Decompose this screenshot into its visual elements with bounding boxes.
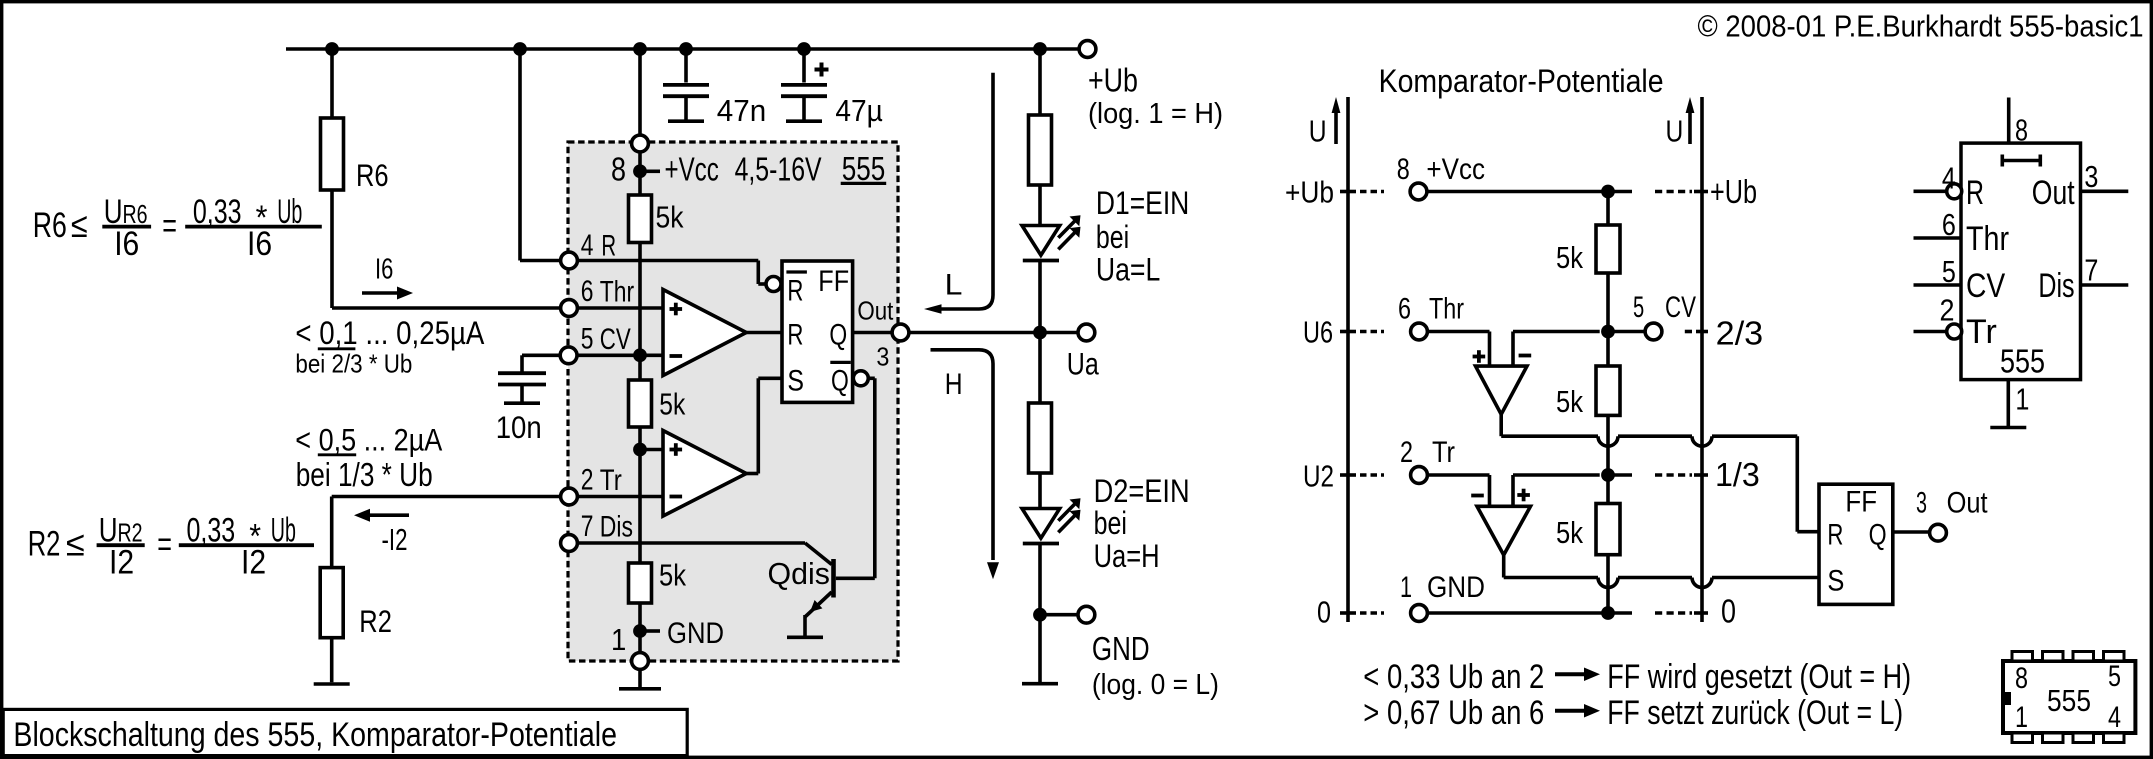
pin 5 CV lead [1914,254,2006,305]
svg-text:5k: 5k [656,200,684,235]
current arrow H (source) [931,350,1000,579]
left voltage axis [1309,97,1348,622]
diode D1 LED [1022,215,1081,260]
current arrow L (sink) [924,73,993,314]
svg-text:U: U [1666,113,1684,148]
junction on bus at LED chain [1033,42,1047,56]
dashes to right axis 2/3 [1685,315,1763,352]
wire D2 to GND [1038,544,1042,683]
svg-text:R6: R6 [356,157,389,193]
svg-text:4: 4 [2108,701,2121,734]
resistor 5k lower [629,558,687,604]
wire pin8 to divider [638,152,642,195]
annotation threshold current [295,314,484,379]
IC U1 555 dashed outline [568,142,898,661]
pin 1 lead to ground [2008,380,2029,426]
svg-text:bei 2/3 * Ub: bei 2/3 * Ub [295,349,412,379]
wire pin2 Tr to R2 [332,497,561,568]
svg-text:© 2008-01 P.E.Burkhardt 555-ba: © 2008-01 P.E.Burkhardt 555-basic1 [1698,9,2144,44]
svg-text:4: 4 [581,229,594,262]
svg-text:H: H [945,368,963,401]
node 2 Tr [1411,467,1428,484]
junction CV node [633,348,647,362]
svg-text:7: 7 [581,510,594,543]
svg-text:Thr: Thr [1966,220,2009,258]
wire FF Q out [1893,530,1930,534]
svg-text:Komparator-Potentiale: Komparator-Potentiale [1379,63,1664,99]
capacitor C1 47n [663,49,766,128]
svg-text:5k: 5k [659,558,686,593]
svg-text:+Ub: +Ub [1710,173,1757,210]
svg-text:6: 6 [581,275,594,308]
terminal +Ub [1079,41,1223,130]
svg-text:R: R [1966,174,1984,212]
wire Tr to compB minus [1428,475,1490,506]
svg-text:< 0,33 Ub an 2: < 0,33 Ub an 2 [1363,658,1544,696]
svg-text:1: 1 [1400,571,1412,604]
wire FF Qbar to Qdis base [836,378,875,578]
svg-text:0,33: 0,33 [193,193,242,231]
svg-text:6: 6 [1942,207,1956,242]
svg-text:(log. 0 = L): (log. 0 = L) [1092,669,1219,701]
svg-text:3: 3 [876,342,889,372]
wire +Ub top bus [286,47,1078,51]
svg-text:6: 6 [1398,293,1411,326]
dashes to right axis 1/3 [1655,456,1760,493]
svg-text:47µ: 47µ [835,94,882,128]
svg-text:bei: bei [1094,505,1127,541]
wire pin4 to FF Rbar [577,261,766,285]
svg-text:Ua: Ua [1067,345,1099,381]
junction CV node (potential) [1601,325,1645,339]
svg-text:1: 1 [2015,701,2028,734]
svg-text:I6: I6 [375,254,393,286]
svg-text:(log. 1 = H): (log. 1 = H) [1088,98,1223,130]
svg-text:Tr: Tr [1966,313,1997,351]
svg-text:CV: CV [1665,291,1696,324]
annotation trigger current [295,422,442,493]
node 6 Thr [1411,323,1428,340]
svg-text:0: 0 [1721,593,1736,630]
svg-text:Q: Q [1869,518,1887,551]
level 0 row [1317,571,1485,629]
junction on bus at pin4 wire [513,42,527,56]
svg-text:-I2: -I2 [382,522,408,557]
svg-text:+Vcc: +Vcc [1426,153,1485,186]
flip-flop FF box (potential) [1819,484,1893,604]
DIP bottom pins [2012,733,2124,743]
wire compA out to FF R with hops [1501,414,1819,531]
svg-text:555: 555 [2000,343,2045,380]
svg-text:8: 8 [611,150,626,187]
junction 1/3 node [633,443,663,457]
pin 4 R lead with bubble [1914,160,1985,212]
drawing title text [13,716,617,754]
svg-text:≤: ≤ [66,525,85,564]
svg-text:Ua=H: Ua=H [1094,538,1160,574]
svg-text:Tr: Tr [1432,436,1455,469]
current arrow I6 [362,254,413,300]
svg-text:+Ub: +Ub [1088,62,1138,99]
wire R2 to ground [330,638,334,683]
svg-text:5k: 5k [1556,240,1583,275]
resistor 5k top (potential) [1556,192,1620,367]
level +Ub row [1285,153,1485,210]
op-amp comparator lower (Tr) [663,431,746,517]
svg-text:Blockschaltung des 555, Kompar: Blockschaltung des 555, Komparator-Poten… [13,716,617,754]
ground under pin 1 [619,687,661,691]
DIP pin1 notch [2005,692,2012,705]
svg-text:555: 555 [2047,683,2091,718]
svg-text:47n: 47n [717,94,766,128]
svg-text:3: 3 [1916,487,1927,520]
svg-text:< 0,1 ... 0,25µA: < 0,1 ... 0,25µA [295,314,484,351]
annotation FF set rule [1363,658,1911,696]
pin 2 Tr terminal [561,464,622,505]
svg-text:7: 7 [2084,253,2098,288]
svg-text:Ua=L: Ua=L [1096,252,1160,288]
svg-text:+Vcc: +Vcc [665,150,719,187]
node 5 CV [1633,291,1696,340]
resistor 5k bottom (potential) [1556,504,1620,614]
svg-text:CV: CV [1966,267,2005,305]
pin 3 Out terminal [857,296,908,372]
svg-text:Qdis: Qdis [768,556,830,591]
resistor upper LED [1029,115,1052,185]
svg-text:5k: 5k [1556,384,1583,419]
svg-text:0: 0 [1317,594,1331,629]
junction on bus at pin8 wire [633,42,647,56]
pin 2 Tr lead with bubble [1914,292,1997,351]
pin 1 terminal [632,653,649,670]
capacitor C3 10n [496,355,560,445]
title Komparator-Potentiale [1379,63,1664,99]
svg-text:1: 1 [611,622,626,657]
svg-text:D1=EIN: D1=EIN [1096,185,1189,221]
svg-text:> 0,67 Ub an 6: > 0,67 Ub an 6 [1363,694,1544,732]
svg-text:2: 2 [1940,292,1955,327]
ground under LED chain [1022,682,1058,686]
label 555 inside pinout [2000,343,2045,380]
svg-text:0,33: 0,33 [187,512,236,550]
svg-text:5: 5 [1942,254,1956,289]
wire FF Q to pin3 Out [853,331,892,335]
svg-text:I2: I2 [241,544,266,582]
svg-text:FF: FF [818,265,849,298]
svg-text:Thr: Thr [1429,293,1464,326]
svg-text:3: 3 [2084,159,2098,194]
wire D1 to Ua node [1038,261,1042,404]
svg-text:5k: 5k [659,386,685,421]
svg-text:5: 5 [2108,660,2121,693]
formula R2 [28,512,314,582]
wire compB out to FF S with hops [1504,555,1819,588]
dashes to right axis 0 [1655,593,1736,630]
svg-text:Q: Q [829,318,847,351]
op-amp comparator upper (Thr) [663,290,746,376]
wire divider upper-middle [638,243,642,381]
right voltage axis [1666,97,1703,622]
svg-text:555: 555 [842,150,886,187]
svg-text:1: 1 [2015,381,2029,416]
svg-text:I6: I6 [114,225,139,263]
svg-text:Q: Q [831,365,849,398]
svg-text:=: = [157,525,172,564]
svg-text:R: R [1827,518,1843,551]
svg-text:8: 8 [1397,153,1410,186]
label D1 [1096,185,1189,288]
pin 5 CV terminal [560,323,631,364]
junction GND node [633,624,660,638]
svg-text:I6: I6 [247,225,272,263]
pin 8 lead [2009,98,2028,148]
wire pin5 CV to divider [577,353,663,357]
pin 4 R terminal [561,229,617,269]
junction GND/LED node [1033,608,1078,622]
svg-text:Tr: Tr [600,464,622,497]
svg-text:Out: Out [2032,174,2075,212]
level U2 row [1303,436,1455,494]
svg-text:≤: ≤ [71,206,88,245]
svg-text:Dis: Dis [600,511,633,544]
wire bus to LED resistor [1038,49,1042,115]
svg-text:5: 5 [581,323,594,356]
terminal 3 Out [1916,487,1988,541]
svg-text:5k: 5k [1556,515,1583,550]
pin 6 Thr lead [1914,207,2010,258]
resistor 5k middle (potential) [1556,366,1620,504]
label D2 [1094,473,1190,574]
junction on bus at C 47u [797,42,811,56]
wire divider middle-lower [638,427,642,563]
svg-text:2: 2 [1400,436,1413,469]
svg-text:GND: GND [1427,571,1485,604]
resistor R2 [320,568,392,639]
current arrow -I2 [354,509,409,557]
svg-text:8: 8 [2015,662,2028,695]
resistor lower LED [1029,403,1052,473]
svg-text:10n: 10n [496,409,542,445]
svg-text:bei: bei [1096,219,1129,255]
IC pin1 labels [611,617,724,657]
pin 3 Out lead [2032,159,2129,212]
wire pin1 to ground [638,669,642,687]
junction pin8 node [633,164,647,178]
junction GND/divider [1601,606,1615,620]
junction Vcc/divider [1601,185,1615,199]
svg-text:U: U [1309,113,1327,148]
capacitor C2 47u electrolytic [781,49,883,128]
FF Qbar inverter bubble [853,371,868,386]
formula R6 [33,193,322,263]
dashes to right axis +Ub [1655,173,1757,210]
wire GND row [1428,611,1633,615]
svg-text:S: S [787,365,804,398]
wire Qdis emitter to ground [803,615,807,636]
svg-text:R: R [787,318,803,351]
svg-text:I2: I2 [109,544,134,582]
flip-flop FF box [782,261,853,402]
IC top labels [611,150,886,188]
svg-text:8: 8 [2015,112,2028,147]
svg-text:=: = [162,207,177,246]
junction 1/3 node (potential) [1601,468,1632,482]
wire resistor to D2 [1038,473,1042,509]
svg-text:Thr: Thr [600,276,634,309]
svg-text:+Ub: +Ub [1285,175,1334,210]
svg-text:4: 4 [1942,160,1956,195]
svg-text:Ub: Ub [271,512,296,550]
junction on bus at R6 [325,42,339,56]
DIP top pins [2012,652,2124,662]
wire pin7 Dis to Qdis collector [577,543,831,565]
svg-text:Out: Out [1947,487,1989,520]
svg-text:5: 5 [1633,291,1644,324]
svg-text:D2=EIN: D2=EIN [1094,473,1190,509]
wire pin2 to comparator [577,495,663,499]
ground under R2 [314,682,350,686]
node 1 GND [1411,605,1428,622]
level U6 row [1303,293,1464,350]
title box [3,709,687,755]
svg-text:Dis: Dis [2038,267,2074,305]
svg-text:FF: FF [1845,486,1877,519]
wire bus to pin 8 [638,49,642,135]
svg-text:R: R [601,229,616,262]
svg-text:4,5-16V: 4,5-16V [735,150,822,187]
op-amp comparator B (down) [1471,489,1530,555]
wire R6 to pin6 Thr [332,190,560,308]
svg-text:R2: R2 [28,525,61,564]
svg-text:R6: R6 [33,206,67,245]
wire pin3 Out to Ua [909,331,1078,335]
resistor 5k upper [629,195,684,243]
op-amp comparator A (down) [1473,350,1532,414]
transistor Qdis [768,556,834,617]
IC 555 pinout box [1961,143,2081,380]
svg-text:Out: Out [857,296,894,326]
svg-text:FF setzt zurück (Out = L): FF setzt zurück (Out = L) [1607,694,1903,732]
svg-text:Ub: Ub [277,193,302,231]
svg-text:R: R [787,275,803,308]
terminal GND [1078,606,1219,701]
svg-text:L: L [945,268,963,301]
wire 1/3 node to compB plus [1513,475,1600,506]
diode D2 LED [1022,498,1081,543]
junction on bus at C 47n [679,42,693,56]
wire comp2 out to FF S [746,378,782,473]
terminal Ua [1067,324,1099,381]
svg-text:CV: CV [600,323,631,356]
wire CV node to compA minus [1513,332,1600,367]
svg-text:GND: GND [1092,630,1150,667]
copyright text [1698,9,2144,44]
wire Vcc row [1427,190,1632,194]
wire bus to pin4 R [520,49,560,261]
wire bus to R6 [330,49,334,118]
svg-text:U6: U6 [1303,315,1333,350]
timer symbol [2002,155,2040,167]
pin 7 Dis lead [2038,253,2128,306]
wire pin6 to comparator [577,306,663,310]
svg-text:1/3: 1/3 [1715,456,1760,493]
pin 8 terminal [632,135,649,152]
resistor 5k middle [629,380,686,427]
wire comp1 out to FF R [746,331,782,335]
resistor R6 [321,118,389,193]
svg-text:< 0,5 ... 2µA: < 0,5 ... 2µA [295,422,442,458]
node 8 +Vcc [1410,183,1427,200]
wire divider to pin1 [638,603,642,653]
svg-text:GND: GND [667,617,724,650]
DIP labels [2015,660,2121,734]
pin 6 Thr terminal [561,275,635,316]
annotation FF reset rule [1363,694,1903,732]
FF Rbar inverter bubble [766,277,781,292]
svg-text:S: S [1827,565,1844,598]
svg-text:R2: R2 [359,603,392,639]
pin 7 Dis terminal [561,510,633,551]
svg-text:FF wird gesetzt (Out = H): FF wird gesetzt (Out = H) [1607,658,1911,696]
ground under Qdis [787,635,823,639]
wire resistor to D1 [1038,185,1042,226]
wire Thr to compA plus [1428,332,1490,367]
svg-text:2/3: 2/3 [1716,315,1764,352]
DIP-8 package outline [2003,661,2135,733]
ground under pinout [1990,426,2026,430]
svg-text:bei 1/3 * Ub: bei 1/3 * Ub [296,456,433,493]
svg-text:2: 2 [581,464,594,497]
svg-text:U2: U2 [1303,459,1334,494]
junction Out/LED node [1033,326,1047,340]
